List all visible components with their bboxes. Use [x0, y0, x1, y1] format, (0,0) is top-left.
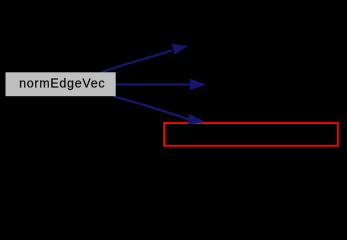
node truncated-red (callee box, contents clipped): [164, 123, 338, 146]
wire edge3 normEdgeVec to red node: [114, 97, 189, 120]
svg-text:normEdgeVec: normEdgeVec: [19, 76, 105, 90]
node normEdgeVec: [6, 72, 116, 96]
wire edge1 normEdgeVec to upper-right node: [101, 50, 172, 72]
arrowhead edge1: [172, 44, 189, 55]
arrowhead edge3: [188, 114, 205, 125]
wire edge2 normEdgeVec to middle-right node: [114, 83, 191, 85]
arrowhead edge2: [190, 79, 206, 91]
